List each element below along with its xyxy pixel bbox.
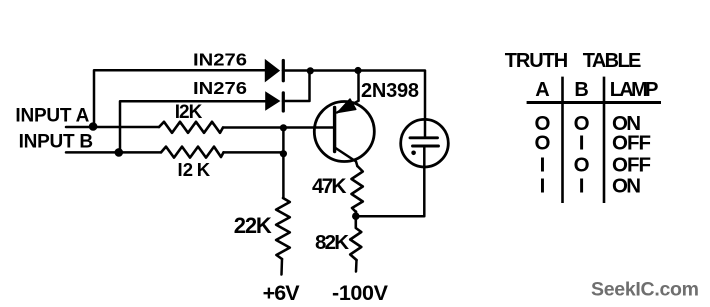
wire 22K tail to +6V	[280, 259, 283, 275]
node B-bias junction	[280, 150, 287, 157]
svg-text:OFF: OFF	[612, 131, 651, 154]
wire 82K tail to -100V	[355, 260, 358, 272]
wire input A lead	[66, 126, 159, 129]
resistor R1 12K (input A)	[159, 122, 223, 133]
wire junction to lamp bottom	[356, 146, 425, 216]
resistor R3 22K	[276, 198, 290, 259]
resistor R5 82K	[350, 216, 361, 260]
transistor Q1 2N398	[314, 99, 374, 162]
svg-text:SeekIC.com: SeekIC.com	[591, 279, 699, 301]
svg-text:+6V: +6V	[263, 281, 301, 305]
svg-text:I: I	[579, 175, 585, 198]
diode D2 1N276	[266, 92, 284, 111]
lamp DS1 (neon)	[401, 119, 449, 167]
wire node A up to diode D1	[94, 70, 265, 126]
svg-text:INPUT B: INPUT B	[19, 132, 94, 153]
svg-text:INPUT A: INPUT A	[15, 106, 89, 127]
svg-text:K: K	[197, 159, 211, 180]
node input A junction	[89, 122, 98, 131]
svg-text:LAMP: LAMP	[610, 79, 659, 101]
node base junction	[280, 124, 287, 131]
svg-text:I2K: I2K	[175, 102, 203, 123]
truth table column line 2	[603, 77, 606, 203]
truth table header underline	[527, 101, 661, 104]
wire node B up to diode D2	[120, 101, 266, 152]
truth table row 4	[540, 175, 641, 198]
wire 12K to base	[223, 126, 335, 129]
wire D2 cathode up to junction	[283, 71, 310, 101]
node input B junction	[115, 148, 124, 157]
svg-text:OFF: OFF	[612, 154, 651, 177]
svg-text:82K: 82K	[315, 231, 349, 254]
resistor R2 12 K (input B)	[161, 147, 224, 158]
wire bias node down	[282, 128, 285, 199]
truth table row 3	[540, 154, 651, 177]
truth table column line 1	[561, 77, 564, 203]
svg-text:I2: I2	[178, 159, 194, 180]
node diode junction	[307, 67, 314, 74]
svg-text:TRUTH: TRUTH	[505, 50, 569, 72]
svg-text:I: I	[540, 154, 546, 177]
svg-text:I: I	[540, 175, 546, 198]
wire 47K to junction	[355, 212, 358, 217]
resistor R4 47K	[352, 166, 363, 212]
wire input B lead	[66, 151, 161, 154]
svg-text:IN276: IN276	[193, 49, 247, 69]
svg-text:-100V: -100V	[332, 281, 389, 305]
svg-text:B: B	[574, 79, 588, 101]
svg-text:2N398: 2N398	[361, 80, 419, 102]
wire collector lead	[336, 148, 358, 166]
truth table row 1	[535, 112, 641, 135]
svg-text:22K: 22K	[234, 213, 272, 238]
svg-text:I: I	[579, 131, 585, 154]
node 47K/82K junction	[352, 212, 360, 220]
svg-text:O: O	[535, 131, 551, 154]
svg-text:IN276: IN276	[193, 78, 247, 98]
svg-text:ON: ON	[612, 175, 641, 198]
svg-text:A: A	[535, 79, 549, 101]
wire emitter vertical	[357, 71, 360, 101]
wire D1 cathode to lamp top	[283, 71, 425, 138]
svg-text:O: O	[574, 154, 590, 177]
wire 12K B to node	[224, 151, 284, 154]
truth table row 2	[535, 131, 651, 154]
node emitter junction	[354, 67, 361, 74]
diode D1 1N276	[265, 60, 283, 82]
svg-text:TABLE: TABLE	[583, 50, 642, 72]
svg-text:47K: 47K	[312, 175, 347, 198]
